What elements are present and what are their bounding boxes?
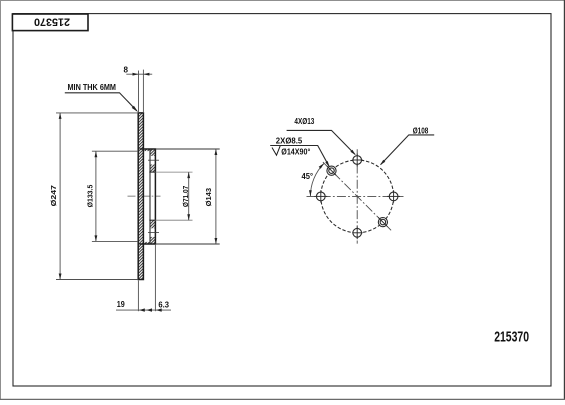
dim 71.07 extension lines [155,171,192,173]
svg-text:215370: 215370 [494,330,529,346]
bolt hole D13 #2 [316,192,325,201]
dim 8 line with outside arrows [126,73,152,75]
bolt hole D13 #4 [353,228,362,237]
svg-text:Ø71.07: Ø71.07 [181,186,190,207]
bolt hole D13 #1 [353,156,362,165]
dim 133.5 extension lines [92,150,138,152]
svg-text:215370: 215370 [34,15,70,27]
svg-text:Ø247: Ø247 [49,185,58,206]
section centerline [128,195,161,197]
dim 133.5 line [95,151,97,241]
svg-text:19: 19 [117,299,125,309]
svg-text:2XØ8.5: 2XØ8.5 [276,136,303,146]
hub flange top junction fill [143,149,150,151]
title block box [12,14,88,31]
right view vertical centerline [356,149,358,243]
countersunk hole D8.5 lower-right [378,218,387,227]
svg-text:Ø14X90°: Ø14X90° [281,146,310,156]
hole center tick marks [352,159,362,161]
note leader [65,93,137,111]
svg-text:Ø108: Ø108 [413,125,429,135]
dim 143 extension lines [155,148,219,150]
countersink symbol [272,146,280,156]
svg-text:MIN THK 6MM: MIN THK 6MM [68,82,117,92]
bolt circle D108 (dashed) [321,160,394,233]
hub bore top edge [149,171,155,173]
hub wall section (hatched, gaps at bolt holes and bore) [150,149,155,156]
svg-text:45°: 45° [302,171,314,181]
45 degree angle arc with arrows [310,163,324,196]
45 degree diagonal centerline [323,162,391,230]
dim 247 extension lines [56,112,138,114]
svg-text:Ø143: Ø143 [204,188,213,207]
dim 8 extension lines [138,71,140,113]
bolt hole centerline lower [148,232,159,234]
bolt hole D13 #3 [389,192,398,201]
bottom dim arrows [139,308,145,311]
svg-text:Ø133.5: Ø133.5 [85,185,94,208]
countersunk hole D8.5 upper-left [327,166,336,175]
svg-text:6.3: 6.3 [158,299,169,309]
hub outline [140,149,156,244]
svg-text:8: 8 [123,65,128,75]
bottom dim line [116,309,171,311]
hub flange bottom junction fill [143,242,150,244]
disc plate section (hatched) [138,113,143,280]
bottom dim extension from disc left face [137,281,139,312]
hub bore bottom edge [149,219,155,221]
svg-text:4XØ13: 4XØ13 [294,116,314,126]
bolt hole centerline upper [148,159,159,161]
right view horizontal centerline [307,195,404,197]
dim 71.07 line [188,172,190,220]
dim 247 line [59,113,61,280]
bottom dim extension from hub right face [154,245,156,311]
dim 143 line [215,149,217,244]
